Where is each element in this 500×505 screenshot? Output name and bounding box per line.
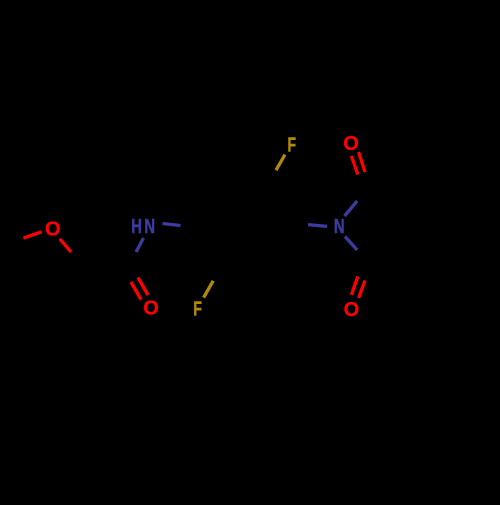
svg-text:O: O <box>343 133 359 155</box>
wire: bottom imide C=O double bond line 2, O half <box>359 280 365 298</box>
wire: bond C4(ring)-N imide, N half <box>308 225 327 227</box>
wire: bond N imide to bottom carbonyl C, N half <box>345 237 357 251</box>
wire: bond C5(ring)-F top, F half <box>276 155 285 171</box>
wire: bond N imide to top carbonyl C, N half <box>345 201 358 216</box>
wire: top imide C=O double bond line 2, O half <box>359 152 365 172</box>
svg-text:O: O <box>45 218 61 240</box>
svg-text:N: N <box>144 215 155 238</box>
wire: bond N-H amide to ring, N half <box>163 224 181 226</box>
svg-text:O: O <box>344 299 360 321</box>
svg-text:O: O <box>143 298 159 320</box>
wire: bond O(methoxy)-CH2, O half <box>60 239 71 252</box>
svg-text:N: N <box>334 215 345 238</box>
wire: bond N-C(=O) amide, N half <box>136 238 144 252</box>
wire: top imide C=O double bond line 1, O half <box>351 156 357 174</box>
svg-text:F: F <box>193 297 202 320</box>
svg-text:F: F <box>288 133 297 156</box>
wire: amide C=O double bond line 2, O half <box>138 278 148 296</box>
svg-text:H: H <box>131 215 142 238</box>
node HN amide nitrogen label <box>131 215 155 238</box>
wire: bond O(methoxy)-CH3, O half <box>23 232 41 238</box>
wire: bond C2(ring)-F bottom, F half <box>204 281 214 298</box>
wire: amide C=O double bond line 1, O half <box>131 282 141 300</box>
wire: bottom imide C=O double bond line 1, O half <box>351 276 357 294</box>
